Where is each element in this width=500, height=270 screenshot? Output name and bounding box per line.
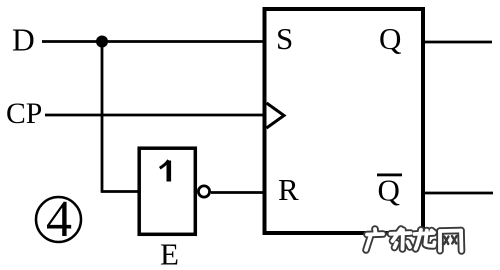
wire Qbar output — [423, 192, 493, 195]
wire to inverter input — [101, 190, 141, 193]
wire Q output — [423, 41, 492, 44]
junction dot on D wire — [96, 36, 108, 48]
svg-text:4: 4 — [46, 191, 72, 248]
overline of Qbar — [377, 174, 402, 177]
svg-text:Q: Q — [379, 21, 401, 56]
figure number circle 4 — [36, 197, 81, 242]
svg-text:S: S — [276, 21, 293, 56]
inverter output bubble — [198, 186, 209, 197]
svg-text:D: D — [12, 23, 35, 58]
wire D input to S — [42, 40, 264, 43]
svg-text:E: E — [160, 237, 179, 270]
inverter label 1 — [160, 160, 169, 181]
wire junction down — [101, 42, 104, 192]
watermark 广东龙网 — [366, 229, 462, 251]
inverter gate box — [139, 148, 195, 234]
wire inverter to R — [211, 191, 264, 194]
svg-text:R: R — [278, 172, 299, 207]
svg-text:CP: CP — [6, 98, 42, 130]
flip-flop U1 box — [265, 9, 424, 233]
svg-text:Q: Q — [378, 173, 400, 208]
wang inner crosses — [444, 236, 457, 244]
clock edge triangle — [267, 103, 285, 128]
wire CP to clock input — [45, 114, 264, 117]
